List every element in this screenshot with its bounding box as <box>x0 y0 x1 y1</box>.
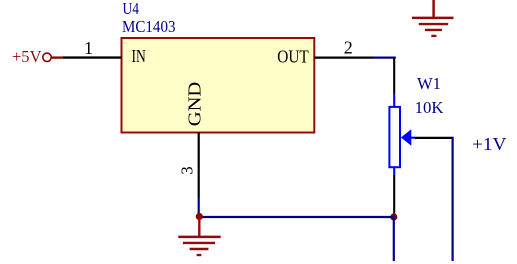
svg-text:OUT: OUT <box>277 47 309 67</box>
junction left <box>196 213 203 220</box>
pot bottom pin line <box>393 175 395 214</box>
svg-text:GND: GND <box>185 82 205 127</box>
wire below right junction <box>393 217 395 262</box>
ground (bottom) bar 2 <box>183 242 215 244</box>
potentiometer wiper arrow <box>401 129 411 146</box>
ground (bottom) bar 4 <box>197 254 202 256</box>
ground (bottom) bar 3 <box>190 248 209 250</box>
pin 2 line <box>314 56 373 58</box>
ground (top right) bar 3 <box>425 29 442 31</box>
svg-text:IN: IN <box>132 46 147 66</box>
pin 3 line <box>198 133 200 198</box>
svg-text:+5V: +5V <box>12 47 42 66</box>
ground (bottom) stem <box>198 217 200 238</box>
svg-text:W1: W1 <box>417 74 441 93</box>
wire pin3 to junction <box>198 198 200 217</box>
power port stub wire <box>51 56 63 58</box>
junction right <box>390 213 397 220</box>
IC U4 MC1403 body <box>122 38 315 133</box>
svg-text:MC1403: MC1403 <box>122 17 176 36</box>
ground (top right) bar 1 <box>412 17 454 20</box>
ground (top right) bar 4 <box>431 35 436 37</box>
wire pin2 to corner <box>373 56 396 58</box>
wire bus horizontal <box>199 216 393 218</box>
potentiometer W1 body <box>389 107 400 167</box>
svg-text:2: 2 <box>344 37 353 57</box>
svg-text:10K: 10K <box>415 98 444 117</box>
svg-text:3: 3 <box>178 166 197 174</box>
wire corner down (black pin of pot) <box>393 58 395 94</box>
pot top stub <box>393 94 395 108</box>
wiper pin line <box>415 137 453 139</box>
svg-text:1: 1 <box>84 38 93 58</box>
pin 1 line <box>63 56 122 58</box>
pot bottom stub <box>393 167 395 174</box>
ground (bottom) bar 1 <box>178 236 220 239</box>
wire right vertical <box>452 137 454 261</box>
ground (top right) stem <box>432 0 435 18</box>
power port terminal circle <box>43 53 51 61</box>
ground (top right) bar 2 <box>419 23 448 25</box>
svg-text:+1V: +1V <box>472 134 507 154</box>
svg-text:U4: U4 <box>123 0 140 18</box>
wiper stub <box>411 137 415 139</box>
